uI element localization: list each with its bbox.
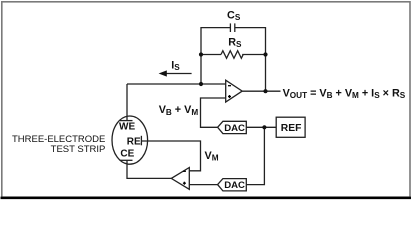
electrode CE contact bar <box>120 159 133 161</box>
DAC U4 <box>218 179 247 192</box>
label three-electrode test strip <box>12 134 105 155</box>
electrode RE contact bar <box>140 136 142 146</box>
wire non-inverting input of U2 to DAC <box>189 184 217 186</box>
junction inverting input node <box>199 82 203 86</box>
wire RE to inverting input of U2 <box>141 141 200 171</box>
wire output of U1 to VOUT <box>242 90 280 92</box>
junction right RS node <box>263 52 267 56</box>
resistor RS <box>221 51 243 59</box>
svg-text:CE: CE <box>120 149 134 160</box>
wire left feedback vertical <box>200 27 202 84</box>
wire non-inverting input of U1 to DAC <box>201 98 226 127</box>
junction left RS node <box>199 52 203 56</box>
DAC U3 <box>218 121 247 134</box>
wire DAC1 output to REF <box>246 126 276 128</box>
wire right feedback vertical <box>265 27 267 91</box>
electrode WE contact bar <box>120 120 133 122</box>
wire DAC2 input from REF node <box>246 127 264 184</box>
op-amp U2 <box>171 168 189 190</box>
svg-text:WE: WE <box>119 122 135 133</box>
svg-text:TEST STRIP: TEST STRIP <box>51 144 106 155</box>
wire RS row left segment <box>201 54 221 56</box>
op-amp U1 <box>226 80 243 102</box>
junction VOUT node <box>263 89 267 93</box>
wire top feedback from left vertical to capacitor <box>201 27 230 29</box>
junction REF node <box>262 125 266 129</box>
current arrow IS <box>159 70 192 76</box>
wire RS row right segment <box>242 54 265 56</box>
svg-text:DAC: DAC <box>224 123 245 134</box>
wire CE drop to U2 output <box>127 160 171 178</box>
wire capacitor to right vertical <box>235 27 266 29</box>
svg-text:REF: REF <box>281 123 302 134</box>
reference REF <box>276 117 305 137</box>
svg-text:RE: RE <box>127 137 141 148</box>
svg-text:DAC: DAC <box>224 180 245 191</box>
wire WE drop into test strip <box>126 84 128 121</box>
three-electrode test strip body <box>112 116 148 164</box>
capacitor CS <box>230 23 234 32</box>
wire inverting input from WE to op-amp U1 <box>127 83 226 85</box>
